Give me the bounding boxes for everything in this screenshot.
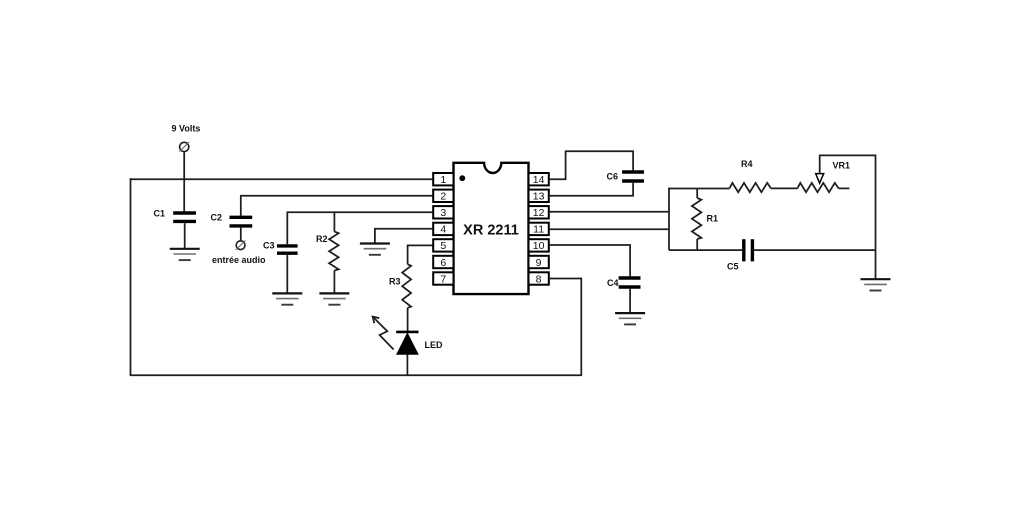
svg-text:entrée audio: entrée audio — [212, 255, 266, 265]
svg-text:R1: R1 — [707, 214, 719, 224]
wire C2 to audio terminal — [240, 228, 242, 241]
pin 4 — [433, 223, 453, 236]
pin 12 — [529, 206, 549, 219]
wire R3 to LED — [407, 308, 409, 332]
ground below C1 — [170, 249, 200, 260]
svg-text:C1: C1 — [154, 209, 166, 219]
pin 14 — [529, 173, 549, 186]
svg-text:R2: R2 — [316, 234, 328, 244]
wire pin 11 to bus — [549, 228, 669, 230]
svg-text:R3: R3 — [389, 277, 401, 287]
ground below R2 — [319, 293, 349, 304]
capacitor C5 — [727, 239, 752, 271]
svg-text:6: 6 — [440, 257, 446, 269]
potentiometer VR1 — [797, 161, 850, 193]
wire pin 3 node to C3 — [287, 212, 433, 244]
svg-text:LED: LED — [425, 340, 444, 350]
pin 9 — [529, 256, 549, 269]
svg-text:VR1: VR1 — [833, 161, 851, 171]
svg-text:9: 9 — [536, 257, 542, 269]
pin 11 — [529, 223, 549, 236]
svg-text:C4: C4 — [607, 278, 619, 288]
wire top node to R4 — [668, 188, 729, 190]
pin 6 — [433, 256, 453, 269]
pin 8 — [529, 272, 549, 285]
wire C6 bottom to pin 13 — [549, 183, 633, 196]
svg-text:9 Volts: 9 Volts — [172, 124, 201, 134]
resistor R4 — [729, 159, 771, 192]
svg-text:10: 10 — [533, 240, 545, 252]
IC U1 XR 2211 body — [454, 163, 529, 294]
svg-text:2: 2 — [440, 191, 446, 203]
svg-text:C2: C2 — [211, 213, 223, 223]
pin 5 — [433, 239, 453, 252]
wire pin 12 to bus — [549, 211, 669, 213]
pin 3 — [433, 206, 453, 219]
svg-text:1: 1 — [440, 174, 446, 186]
wire C1 to ground — [184, 223, 186, 248]
wire pin 5 to R3 — [408, 245, 434, 264]
ground below C3 — [272, 293, 302, 304]
svg-text:C5: C5 — [727, 262, 739, 272]
wire left rail vertical — [130, 178, 132, 375]
svg-text:C3: C3 — [263, 241, 275, 251]
svg-text:12: 12 — [533, 207, 545, 219]
resistor R1 — [692, 189, 718, 251]
svg-text:13: 13 — [533, 191, 545, 203]
svg-text:5: 5 — [440, 240, 446, 252]
svg-text:4: 4 — [440, 224, 446, 236]
wire LED to bottom rail — [406, 354, 408, 375]
capacitor C3 — [263, 241, 298, 254]
pin 7 — [433, 272, 453, 285]
resistor R2 — [316, 212, 339, 292]
ground right rail — [861, 279, 891, 290]
capacitor C1 — [154, 209, 197, 222]
wire pin 8 to bottom rail — [549, 279, 582, 377]
wire C3 to ground — [286, 255, 288, 293]
svg-text:14: 14 — [533, 174, 545, 186]
capacitor C4 — [607, 278, 641, 288]
wire VR1 wiper to right rail — [820, 155, 876, 278]
wire bottom node to C5 — [669, 249, 742, 251]
LED D1 — [396, 332, 443, 354]
pin 10 — [529, 239, 549, 252]
svg-text:C6: C6 — [607, 172, 619, 182]
wire pin 14 to C6 top — [549, 151, 633, 179]
power terminal 9 Volts — [172, 124, 201, 152]
svg-text:3: 3 — [440, 207, 446, 219]
wire 9V feed to C1 — [183, 152, 185, 213]
svg-text:8: 8 — [536, 273, 542, 285]
svg-text:XR 2211: XR 2211 — [463, 223, 519, 239]
ground at pin 4 — [360, 244, 390, 255]
resistor R3 — [389, 264, 411, 308]
wire bottom rail — [130, 374, 582, 376]
svg-text:7: 7 — [440, 273, 446, 285]
wire C4 to ground — [629, 289, 631, 313]
capacitor C2 — [211, 213, 253, 226]
wire pin 1 to left rail — [130, 178, 434, 180]
pin 2 — [433, 190, 453, 203]
wire C5 to right rail — [754, 249, 876, 251]
ground below C4 — [615, 313, 645, 324]
wire pin 2 to C2 — [241, 196, 433, 216]
wire R4 to VR1 — [771, 187, 797, 189]
wire pin 10 to C4 — [549, 245, 630, 276]
LED light arrow — [373, 317, 394, 350]
svg-text:R4: R4 — [741, 159, 753, 169]
pin 13 — [529, 190, 549, 203]
input terminal entree audio — [212, 240, 266, 265]
pin 1 — [433, 173, 453, 186]
wire node bus vertical — [668, 188, 670, 250]
capacitor C6 — [607, 172, 645, 182]
wire pin 4 to ground — [375, 229, 433, 243]
svg-text:11: 11 — [533, 224, 544, 236]
